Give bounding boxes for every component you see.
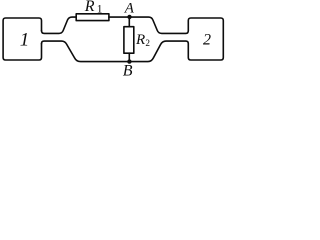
terminal box 2	[188, 18, 223, 60]
terminal box 1	[3, 18, 41, 60]
wire bottom wall: box1 neck, bottom rail, right neck into box 2	[42, 41, 189, 62]
wire top wall: box1 neck into top rail	[42, 17, 77, 33]
svg-text:R: R	[135, 32, 145, 48]
resistor R2	[124, 27, 134, 54]
svg-text:2: 2	[145, 38, 150, 48]
resistor R1	[76, 14, 109, 21]
svg-text:1: 1	[97, 4, 103, 16]
svg-text:A: A	[124, 1, 135, 17]
wire node A to R2	[128, 17, 130, 27]
svg-text:1: 1	[20, 30, 30, 51]
svg-text:B: B	[123, 63, 133, 77]
wire top rail: R1 to node A to right neck into box 2	[109, 17, 188, 33]
node B junction dot	[127, 59, 131, 63]
svg-text:2: 2	[203, 32, 211, 49]
node A junction dot	[127, 15, 131, 19]
svg-text:R: R	[84, 0, 95, 15]
wire R2 to node B	[128, 53, 130, 61]
